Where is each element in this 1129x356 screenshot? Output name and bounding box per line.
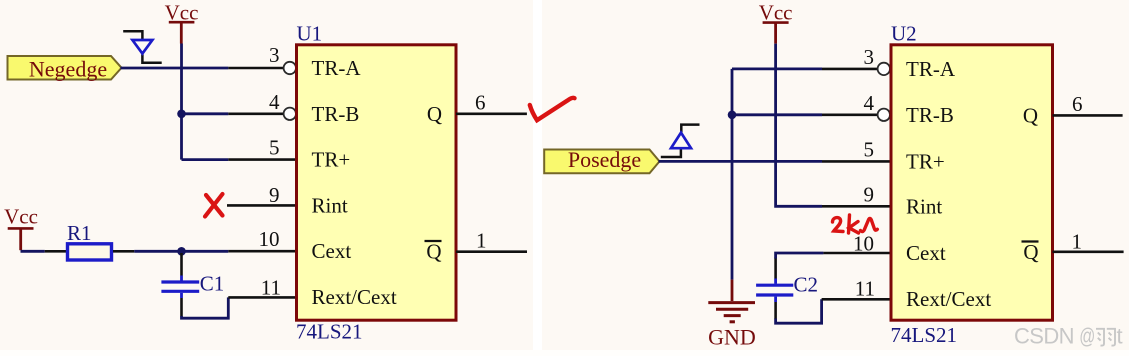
svg-text:5: 5 bbox=[864, 137, 875, 161]
pin 11 lead bbox=[822, 298, 891, 301]
svg-text:Q: Q bbox=[426, 240, 441, 264]
pin 4 bubble bbox=[878, 109, 890, 121]
svg-text:3: 3 bbox=[269, 43, 280, 67]
svg-text:@: @ bbox=[1079, 325, 1095, 349]
red 2k ohm annotation bbox=[833, 215, 878, 233]
U2 pin 1 lead (Qbar output) bbox=[1053, 251, 1124, 254]
pin 11 lead bbox=[228, 296, 296, 299]
junction dot (C1 tap) bbox=[177, 247, 186, 256]
U2 pin label Qbar bbox=[1022, 240, 1039, 264]
pin 10 lead bbox=[823, 252, 891, 255]
svg-text:11: 11 bbox=[855, 277, 875, 301]
wire: pin 3 branch vertical down to GND bbox=[731, 69, 734, 280]
svg-text:Negedge: Negedge bbox=[29, 56, 107, 81]
falling-edge trigger symbol bbox=[123, 31, 162, 63]
svg-text:TR-B: TR-B bbox=[906, 103, 954, 127]
svg-text:t: t bbox=[1117, 324, 1123, 349]
svg-text:GND: GND bbox=[708, 325, 756, 350]
wire: to pin 5 bbox=[182, 158, 229, 161]
power Vcc (bottom left) bbox=[4, 205, 38, 251]
svg-text:R1: R1 bbox=[67, 221, 92, 245]
svg-text:6: 6 bbox=[475, 91, 486, 115]
wire: to pin 4 bbox=[732, 113, 822, 116]
svg-text:Vcc: Vcc bbox=[759, 1, 793, 25]
svg-text:Vcc: Vcc bbox=[4, 205, 38, 229]
red X annotation on pin 9 bbox=[205, 194, 223, 217]
wire: to pin 4 bbox=[182, 112, 229, 115]
svg-text:U2: U2 bbox=[891, 22, 917, 46]
svg-text:6: 6 bbox=[1072, 92, 1083, 116]
pin 5 lead bbox=[228, 158, 296, 161]
pin 4 lead bbox=[822, 114, 878, 117]
svg-text:1: 1 bbox=[476, 229, 487, 253]
svg-text:TR-B: TR-B bbox=[312, 102, 360, 126]
op-amp U1 74LS21 body bbox=[296, 22, 456, 344]
svg-text:74LS21: 74LS21 bbox=[891, 323, 958, 347]
wire: Vcc vertical down to TR+ row bbox=[180, 44, 183, 160]
capacitor C2 bbox=[756, 258, 818, 320]
pin 5 lead bbox=[822, 160, 891, 163]
pin 9 lead (unconnected) bbox=[227, 204, 297, 207]
svg-text:TR-A: TR-A bbox=[906, 57, 956, 81]
power Vcc (right) bbox=[759, 1, 793, 44]
wire: R1 to pin 10 bbox=[134, 250, 228, 253]
svg-text:10: 10 bbox=[259, 227, 280, 251]
svg-text:TR+: TR+ bbox=[906, 149, 945, 173]
pin 3 bubble bbox=[284, 62, 296, 74]
svg-text:C2: C2 bbox=[794, 273, 819, 297]
R1 right lead bbox=[113, 250, 134, 253]
U2 pin 6 lead (Q output) bbox=[1053, 114, 1123, 117]
ground GND bbox=[708, 280, 756, 350]
svg-text:9: 9 bbox=[269, 183, 280, 207]
svg-text:Cext: Cext bbox=[312, 239, 352, 263]
svg-text:U1: U1 bbox=[297, 22, 323, 46]
op-amp U2 74LS21 body bbox=[891, 22, 1053, 348]
rising-edge trigger symbol bbox=[661, 125, 700, 157]
svg-text:Cext: Cext bbox=[906, 241, 946, 265]
wire: Negedge to pin 3 bbox=[121, 67, 229, 70]
resistor R1 bbox=[67, 221, 112, 260]
junction dot (Vcc line / pin 4) bbox=[177, 110, 186, 119]
pin 4 bubble bbox=[284, 108, 296, 120]
svg-text:Q: Q bbox=[427, 102, 442, 126]
svg-text:9: 9 bbox=[864, 182, 875, 206]
port Posedge bbox=[544, 147, 659, 173]
svg-text:74LS21: 74LS21 bbox=[296, 320, 363, 344]
wire: pin 10 down to C2 top bbox=[776, 253, 824, 259]
U1 pin label Qbar bbox=[425, 240, 442, 264]
watermark CSDN bbox=[1014, 324, 1123, 350]
red checkmark annotation bbox=[530, 98, 575, 120]
wire: C2 bottom around to pin 11 bbox=[776, 299, 822, 323]
svg-text:Rint: Rint bbox=[906, 194, 942, 218]
white seam between stitched screenshots bbox=[533, 0, 542, 356]
svg-text:10: 10 bbox=[853, 232, 874, 256]
port Negedge bbox=[8, 56, 122, 81]
svg-text:4: 4 bbox=[864, 91, 875, 115]
wire: Vcc down and right to pin 9 bbox=[776, 44, 822, 207]
pin 10 lead bbox=[228, 250, 296, 253]
wire: Vcc to R1 bbox=[21, 250, 45, 253]
junction dot (pin 4 tap) bbox=[728, 111, 737, 120]
pin 3 lead bbox=[822, 68, 878, 71]
capacitor C1 bbox=[161, 253, 224, 317]
svg-text:5: 5 bbox=[269, 136, 280, 160]
svg-text:C1: C1 bbox=[200, 272, 225, 296]
svg-text:Vcc: Vcc bbox=[165, 1, 199, 25]
pin 9 lead bbox=[822, 205, 891, 208]
svg-text:TR+: TR+ bbox=[312, 148, 351, 172]
pin 4 lead bbox=[228, 113, 283, 116]
U1 pin 6 lead (Q output) bbox=[456, 113, 527, 116]
U1 pin 1 lead (Qbar output) bbox=[456, 250, 527, 253]
svg-text:Q: Q bbox=[1023, 103, 1038, 127]
svg-text:Rext/Cext: Rext/Cext bbox=[312, 285, 397, 309]
svg-text:1: 1 bbox=[1072, 230, 1083, 254]
R1 left lead bbox=[45, 250, 66, 253]
svg-text:Rint: Rint bbox=[312, 193, 348, 217]
wire: Posedge to pin 5 bbox=[659, 160, 823, 163]
wire: C1 bottom around to pin 11 bbox=[182, 297, 229, 318]
svg-text:4: 4 bbox=[269, 90, 280, 114]
svg-text:TR-A: TR-A bbox=[312, 56, 362, 80]
svg-text:Q: Q bbox=[1023, 240, 1038, 264]
svg-text:Posedge: Posedge bbox=[568, 147, 641, 172]
svg-text:3: 3 bbox=[864, 45, 875, 69]
svg-text:11: 11 bbox=[261, 276, 281, 300]
svg-text:CSDN: CSDN bbox=[1014, 324, 1074, 349]
pin 3 bubble bbox=[878, 63, 890, 75]
pin 3 lead bbox=[228, 67, 283, 70]
power Vcc (top left) bbox=[165, 1, 199, 44]
faint lighter band at bottom edge bbox=[0, 350, 1129, 356]
wire: to pin 3 bbox=[732, 68, 822, 71]
svg-text:Rext/Cext: Rext/Cext bbox=[906, 287, 991, 311]
